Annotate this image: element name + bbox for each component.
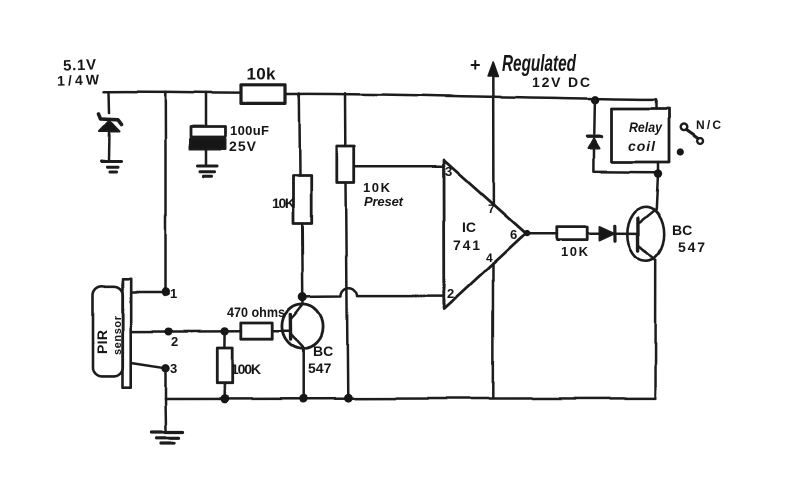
- wire Q2 emitter to ground rail: [654, 261, 657, 399]
- transistor Q1 collector: [291, 297, 304, 320]
- svg-text:6: 6: [510, 227, 517, 242]
- wire op-amp pin 4 to ground rail: [492, 264, 495, 399]
- ground (capacitor): [198, 166, 218, 176]
- wire diode to transistor base: [616, 232, 639, 235]
- resistor R3 100K: [223, 331, 226, 348]
- svg-text:IC: IC: [462, 219, 476, 235]
- zener diode D1 5.1V: [99, 114, 122, 132]
- wire PIR pin 1 stub: [131, 291, 166, 294]
- svg-text:7: 7: [488, 202, 495, 216]
- svg-text:1/4W: 1/4W: [57, 71, 100, 88]
- wire divider node to 470 ohm: [225, 330, 241, 333]
- transistor Q2 BC547 body: [628, 207, 664, 261]
- resistor R4 470 ohms: [241, 323, 272, 339]
- svg-text:2: 2: [171, 334, 178, 349]
- wire top +12V rail left segment: [104, 90, 241, 93]
- wire PIR pin 2 stub to divider node: [131, 330, 225, 333]
- diode D2 flyback: [587, 136, 602, 148]
- svg-text:+: +: [470, 55, 481, 75]
- PIR sensor body: [93, 286, 123, 376]
- wire 470 ohm to Q1 base: [272, 330, 290, 333]
- wire top rail corner into relay: [655, 99, 658, 108]
- wire capacitor branch: [205, 92, 208, 126]
- svg-text:N/C: N/C: [696, 118, 721, 132]
- potentiometer RV1 10K preset: [337, 146, 354, 183]
- wire capacitor to ground: [205, 150, 208, 165]
- svg-text:100uF: 100uF: [230, 123, 269, 138]
- relay N/C contact end circle: [698, 138, 704, 144]
- wire flyback diode top lead: [593, 100, 596, 134]
- svg-text:12V DC: 12V DC: [532, 74, 590, 90]
- transistor Q1 base bar: [289, 315, 293, 340]
- svg-text:PIR: PIR: [94, 330, 110, 354]
- wire 10K to diode: [587, 232, 600, 235]
- node PIR pin 1: [161, 288, 170, 297]
- node ground rail at 100K: [221, 395, 230, 404]
- svg-text:3: 3: [170, 361, 177, 376]
- capacitor C1 100uF 25V: [190, 127, 227, 150]
- svg-text:BC: BC: [313, 343, 333, 359]
- svg-text:4: 4: [486, 251, 493, 265]
- resistor R5 10K (output): [557, 227, 587, 240]
- svg-text:coil: coil: [628, 138, 656, 154]
- wire op-amp pin 7 from +12V rail: [492, 97, 495, 204]
- node ground rail at preset: [344, 394, 353, 403]
- svg-text:Relay: Relay: [629, 119, 663, 135]
- svg-text:741: 741: [453, 237, 480, 253]
- svg-text:547: 547: [308, 360, 332, 376]
- wire ground rail: [166, 397, 656, 400]
- ground (main rail): [152, 433, 183, 444]
- wire ground rail stub down: [164, 399, 167, 431]
- node ground rail at Q1 emitter: [299, 394, 308, 403]
- node Q1 collector junction: [298, 292, 307, 301]
- ground (zener): [102, 162, 122, 173]
- transistor Q2 emitter: [639, 246, 656, 261]
- svg-text:Regulated: Regulated: [502, 50, 577, 76]
- wire zener branch: [108, 92, 111, 113]
- svg-text:2: 2: [447, 286, 454, 301]
- svg-text:Preset: Preset: [364, 194, 404, 209]
- resistor R2 10K (vertical): [293, 176, 311, 224]
- wire op-amp output to 10K: [527, 232, 557, 235]
- svg-text:10k: 10k: [247, 65, 277, 84]
- wire top rail to PIR pin 1: [164, 92, 167, 292]
- wire 10K vertical resistor top lead: [298, 93, 301, 176]
- svg-text:547: 547: [678, 239, 705, 255]
- relay N/C contact: common pole circle: [681, 124, 688, 131]
- node divider junction (100K top): [220, 327, 228, 335]
- transistor Q2 base bar: [637, 218, 641, 251]
- svg-text:3: 3: [445, 164, 452, 179]
- svg-text:100K: 100K: [231, 361, 261, 377]
- op-amp U1 IC741: [444, 160, 526, 309]
- diode D3 series: [600, 226, 616, 241]
- node PIR pin 2: [164, 328, 172, 336]
- svg-text:10K: 10K: [363, 180, 391, 195]
- wire op-amp pin 2 input with hop: [303, 288, 444, 297]
- wire top +12V rail right segment: [286, 94, 657, 100]
- transistor Q2 collector: [639, 209, 657, 223]
- resistor R1 10k (top): [241, 85, 286, 104]
- node relay bottom junction: [654, 169, 662, 177]
- node output vertex junction: [524, 230, 531, 237]
- wire 10K vertical resistor bottom lead: [301, 224, 304, 293]
- svg-text:25V: 25V: [229, 138, 257, 154]
- wire 100K bottom lead: [223, 383, 226, 399]
- PIR sensor board: [123, 279, 131, 387]
- supply arrow regulated 12V: [492, 72, 495, 97]
- wire zener to ground: [108, 132, 111, 161]
- svg-text:1: 1: [170, 286, 177, 301]
- node junction top rail to relay branch: [590, 96, 598, 104]
- relay N/C contact arm: [687, 130, 699, 139]
- wire preset top lead: [344, 93, 347, 146]
- wire flyback diode bottom lead and elbow to relay bottom node: [593, 149, 658, 173]
- svg-text:10K: 10K: [272, 195, 295, 211]
- relay coil box: [612, 109, 670, 163]
- wire preset wiper to op-amp pin 3: [354, 165, 444, 168]
- node PIR pin 3: [161, 364, 169, 372]
- svg-text:sensor: sensor: [112, 315, 124, 355]
- transistor Q1 BC547 body: [282, 304, 323, 349]
- wire preset bottom lead down to ground rail: [346, 183, 348, 399]
- svg-text:470 ohms: 470 ohms: [227, 304, 285, 320]
- relay N/C fixed contact dot: [677, 148, 684, 155]
- transistor Q1 emitter: [291, 334, 304, 398]
- wire PIR pin 3 stub: [131, 363, 166, 368]
- wire pin 3 down to ground rail: [164, 368, 167, 399]
- svg-text:BC: BC: [672, 222, 692, 238]
- wire relay bottom to transistor collector: [656, 162, 658, 209]
- svg-text:10K: 10K: [561, 244, 589, 259]
